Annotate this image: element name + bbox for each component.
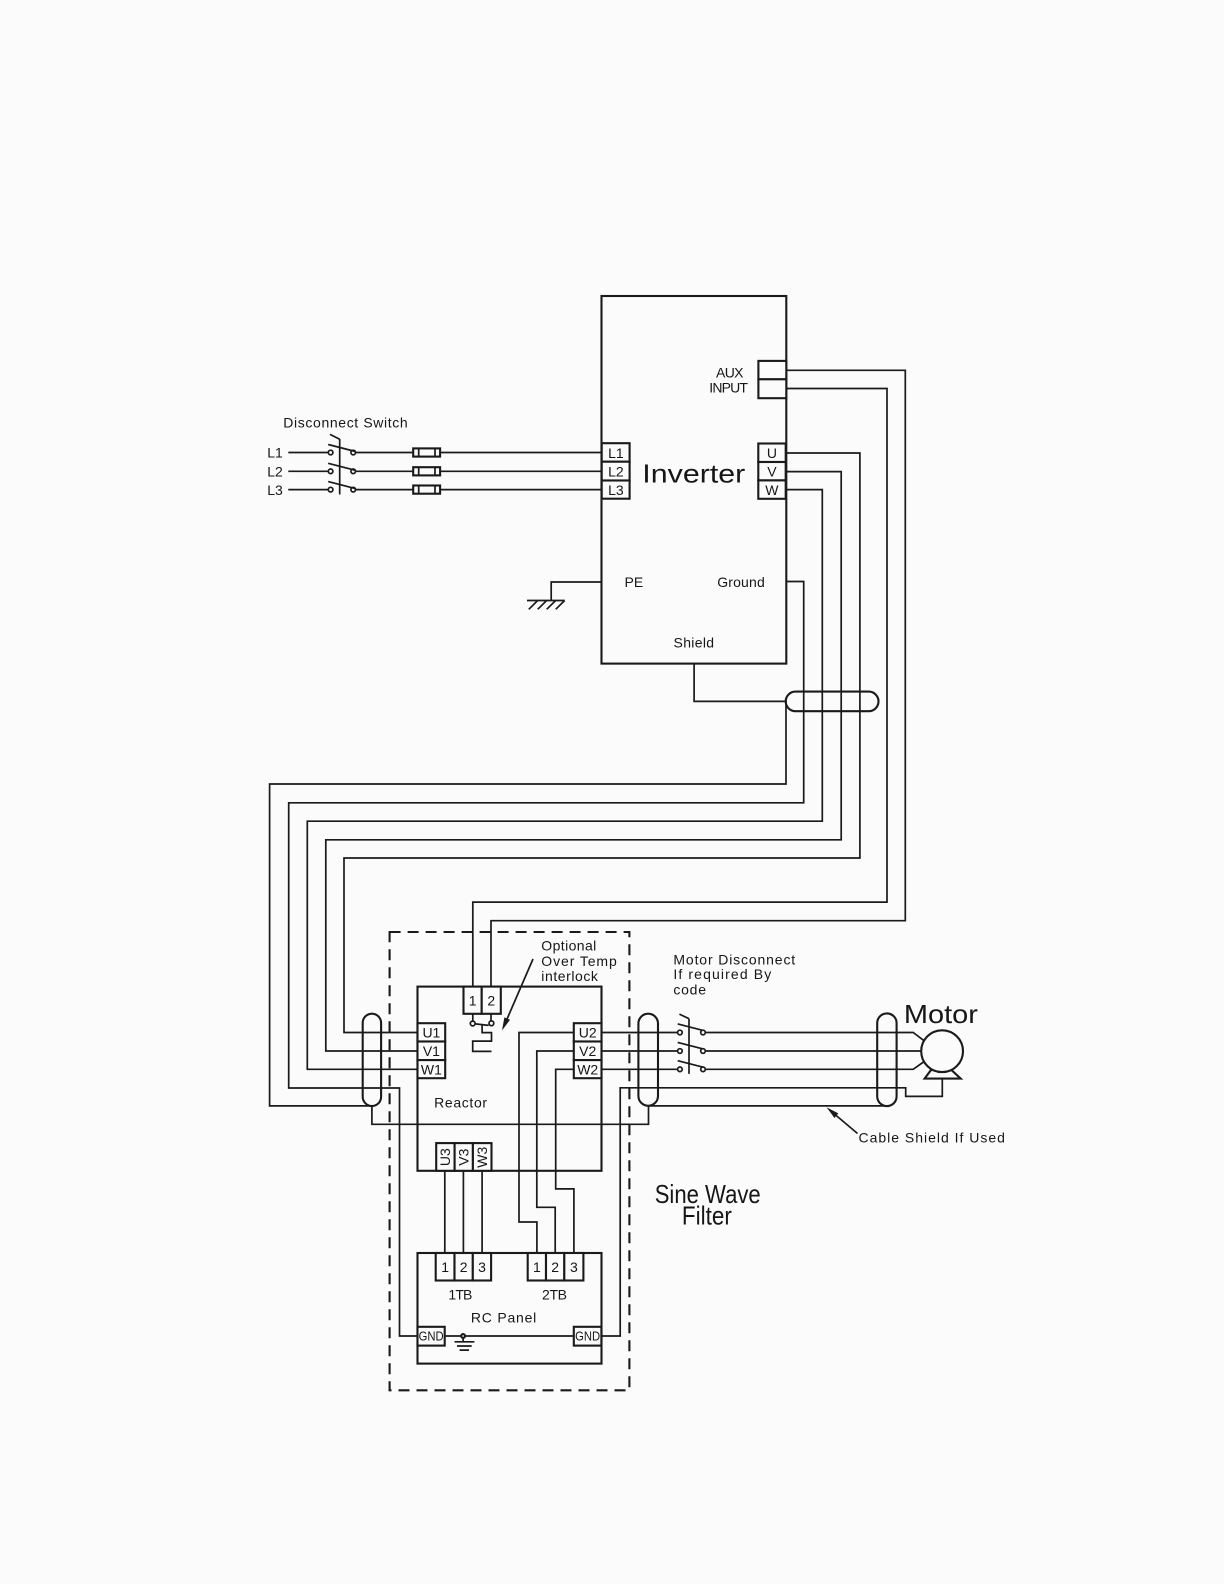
svg-text:U1: U1 [422, 1025, 440, 1041]
fuse F2 [413, 467, 440, 475]
wire AUX2 output to terminal 1 of interlock [473, 389, 887, 987]
svg-text:Reactor: Reactor [434, 1095, 487, 1111]
disconnect switch blade pole 3 [328, 482, 355, 489]
svg-text:2: 2 [460, 1259, 468, 1275]
svg-text:GND: GND [575, 1329, 600, 1343]
wire L2 switch to fuse [356, 470, 414, 472]
motor disconnect handle [679, 1014, 689, 1019]
wire L1 switch to fuse [356, 452, 414, 454]
svg-text:Disconnect Switch: Disconnect Switch [283, 415, 407, 431]
motor disconnect blade pole 1 [678, 1024, 703, 1030]
interlock leader arrow [502, 959, 533, 1031]
svg-text:Motor: Motor [904, 999, 978, 1029]
motor disconnect pole 1 contacts [678, 1030, 683, 1035]
svg-text:V3: V3 [455, 1148, 471, 1165]
cable shield oval at motor [877, 1013, 896, 1106]
AUX terminal box 1 [758, 361, 786, 379]
terminal 2TB-3 [564, 1253, 583, 1281]
wire L2 fuse to inverter [440, 470, 602, 472]
sine wave filter dashed enclosure [390, 932, 630, 1390]
terminal 1TB-1 [436, 1253, 455, 1281]
wire U2 to motor disconnect [602, 1032, 678, 1034]
over temp thermal element [473, 1025, 492, 1052]
motor M1 [921, 1030, 963, 1072]
svg-text:1: 1 [441, 1259, 449, 1275]
interlock terminal 1 [464, 987, 482, 1014]
svg-text:Ground: Ground [717, 574, 765, 590]
cable shield oval at filter output [638, 1014, 658, 1106]
motor disconnect blade pole 2 [678, 1042, 703, 1048]
terminal U [758, 444, 785, 463]
wire L1 feed from source to switch [288, 452, 328, 454]
terminal L2 [602, 462, 630, 481]
svg-text:U3: U3 [437, 1148, 453, 1166]
terminal W2 [574, 1060, 602, 1078]
inverter box [602, 296, 787, 664]
svg-text:If required By: If required By [673, 966, 771, 982]
wire U3 to 1TB-1 [444, 1171, 446, 1253]
svg-text:L3: L3 [608, 482, 624, 498]
terminal V1 [418, 1042, 446, 1061]
svg-text:GND: GND [419, 1329, 444, 1343]
svg-text:code: code [673, 982, 706, 998]
svg-text:W1: W1 [421, 1062, 442, 1078]
cable shield oval at filter input [363, 1014, 381, 1106]
terminal GND right [574, 1327, 602, 1346]
svg-text:interlock: interlock [541, 968, 599, 984]
wire U inverter to reactor U1 [344, 453, 860, 1033]
earth tap circle [461, 1334, 465, 1338]
svg-text:1: 1 [533, 1259, 541, 1275]
disconnect switch blade pole 1 [328, 445, 355, 452]
svg-text:V2: V2 [579, 1043, 596, 1059]
wire W2 to motor disconnect [602, 1068, 678, 1070]
wire V inverter to reactor V1 [326, 472, 841, 1051]
svg-text:2: 2 [551, 1259, 559, 1275]
terminal L3 [602, 481, 630, 499]
terminal V3 [455, 1143, 473, 1171]
motor disconnect blade pole 3 [678, 1061, 703, 1067]
cable shield note arrow [827, 1107, 858, 1133]
terminal 1TB-3 [473, 1253, 491, 1281]
wire L1 fuse to inverter [440, 452, 602, 454]
terminal W [758, 480, 785, 498]
wire Ground inverter to RC panel left GND [289, 582, 804, 1337]
cable shield oval at inverter output [786, 692, 879, 712]
terminal W3 [473, 1143, 492, 1171]
wire Shield inverter through cable shields [270, 664, 887, 1125]
disconnect switch pole 1 contacts [328, 450, 333, 455]
wire V3 to 1TB-2 [462, 1171, 464, 1253]
svg-text:Motor Disconnect: Motor Disconnect [673, 952, 795, 968]
wire L2 feed from source to switch [288, 470, 328, 472]
svg-text:L2: L2 [267, 464, 283, 480]
svg-text:W: W [765, 482, 779, 498]
wire W3 to 1TB-3 [481, 1171, 483, 1253]
wire GND to GND inside RC panel [445, 1335, 574, 1337]
fuse F1 [413, 448, 440, 456]
svg-text:Filter: Filter [682, 1200, 732, 1230]
AUX terminal box 2 [758, 379, 786, 398]
svg-text:3: 3 [570, 1259, 578, 1275]
svg-text:RC Panel: RC Panel [471, 1310, 536, 1326]
svg-text:Shield: Shield [674, 635, 715, 651]
wire L3 feed from source to switch [288, 489, 328, 491]
disconnect switch handle [330, 434, 340, 439]
terminal GND left [418, 1327, 445, 1346]
disconnect switch pole 3 contacts [328, 487, 333, 492]
svg-text:V1: V1 [423, 1043, 440, 1059]
motor disconnect link bar [688, 1019, 690, 1074]
wire U2 to 2TB-1 [519, 1033, 574, 1254]
svg-text:Optional: Optional [541, 938, 596, 954]
wire W2 disconnect to motor [705, 1062, 923, 1069]
disconnect switch link bar [339, 439, 341, 495]
motor disconnect pole 2 contacts [678, 1049, 683, 1054]
svg-text:V: V [767, 464, 777, 480]
svg-text:1: 1 [469, 993, 477, 1009]
svg-text:AUX: AUX [716, 365, 744, 381]
wire PE to earth [551, 582, 602, 601]
terminal 2TB-1 [528, 1253, 546, 1281]
motor disconnect pole 3 contacts [678, 1067, 683, 1072]
wire V2 to 2TB-2 [537, 1051, 574, 1253]
terminal U1 [418, 1023, 446, 1041]
over temp interlock contacts [470, 1021, 475, 1026]
svg-text:2TB: 2TB [542, 1287, 567, 1303]
wire AUX1 output to terminal 2 of interlock [491, 370, 905, 986]
over temp interlock switch stubs [473, 1014, 491, 1021]
terminal V [758, 462, 785, 480]
terminal 1TB-2 [455, 1253, 473, 1281]
wire W inverter to reactor W1 [307, 490, 822, 1070]
terminal W1 [418, 1060, 446, 1078]
earth ground symbol for PE [527, 601, 565, 610]
svg-text:U2: U2 [579, 1025, 597, 1041]
svg-text:W3: W3 [474, 1146, 490, 1167]
svg-text:L2: L2 [608, 464, 624, 480]
svg-text:L1: L1 [267, 445, 283, 461]
earth ground symbol in RC panel [455, 1338, 475, 1350]
svg-text:PE: PE [625, 574, 644, 590]
wire W2 to 2TB-3 [556, 1069, 574, 1253]
svg-text:Over Temp: Over Temp [541, 953, 617, 969]
svg-text:INPUT: INPUT [709, 380, 748, 396]
motor base [925, 1070, 961, 1079]
terminal 2TB-2 [546, 1253, 564, 1281]
svg-text:W2: W2 [577, 1062, 598, 1078]
wire L3 switch to fuse [356, 489, 414, 491]
terminal V2 [574, 1042, 602, 1061]
terminal U3 [436, 1143, 454, 1171]
wire motor frame ground to RC panel right GND [601, 1079, 942, 1336]
svg-text:L1: L1 [608, 445, 624, 461]
svg-text:2: 2 [487, 993, 495, 1009]
interlock terminal 2 [482, 987, 501, 1014]
wire L3 fuse to inverter [440, 489, 602, 491]
terminal L1 [602, 443, 630, 462]
disconnect switch pole 2 contacts [328, 469, 333, 474]
disconnect switch blade pole 2 [328, 463, 355, 470]
svg-text:1TB: 1TB [448, 1287, 472, 1303]
over temp interlock blade [475, 1024, 488, 1026]
reactor box [418, 987, 602, 1171]
fuse F3 [413, 486, 440, 494]
wire V2 to motor disconnect [602, 1050, 678, 1052]
RC panel box [418, 1253, 602, 1364]
svg-text:Inverter: Inverter [642, 459, 745, 489]
svg-text:L3: L3 [267, 482, 283, 498]
wire U2 disconnect to motor [705, 1033, 923, 1041]
svg-text:Cable Shield If Used: Cable Shield If Used [859, 1130, 1005, 1146]
terminal U2 [574, 1023, 602, 1041]
wire V2 disconnect to motor [705, 1050, 921, 1052]
svg-text:U: U [767, 445, 777, 461]
svg-text:3: 3 [478, 1259, 486, 1275]
